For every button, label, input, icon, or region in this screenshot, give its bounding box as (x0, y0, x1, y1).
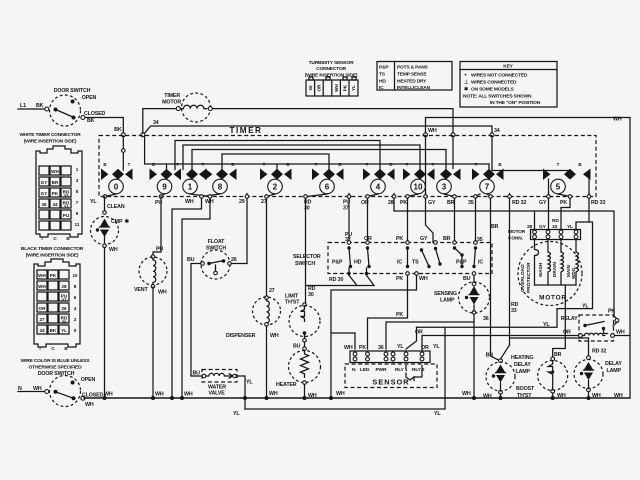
svg-text:GY: GY (428, 200, 436, 206)
svg-text:OR: OR (39, 306, 47, 311)
svg-text:T: T (557, 162, 560, 167)
legend box P&P/TS/HD/IC (377, 62, 452, 92)
svg-text:BK: BK (50, 328, 57, 333)
svg-text:WH: WH (336, 391, 345, 397)
timer box (99, 136, 596, 197)
svg-text:DELAY: DELAY (605, 361, 622, 367)
svg-text:3: 3 (442, 183, 447, 192)
svg-text:B: B (103, 162, 106, 167)
svg-text:SWITCH: SWITCH (295, 261, 315, 267)
svg-text:30: 30 (304, 206, 310, 212)
svg-text:RELAY: RELAY (561, 316, 578, 322)
dispenser chain (226, 198, 281, 398)
svg-text:YL: YL (351, 85, 356, 91)
SEC5 (84, 194, 630, 400)
wire from motor terminal into timer (145, 136, 489, 164)
wire motor to boost (553, 285, 566, 358)
svg-text:5: 5 (76, 189, 79, 194)
svg-text:4: 4 (376, 183, 381, 192)
timer cam 2 (260, 169, 292, 194)
svg-text:YL: YL (434, 411, 441, 417)
svg-text:WH: WH (613, 117, 622, 123)
svg-text:GY: GY (41, 191, 48, 196)
svg-text:IC: IC (379, 85, 384, 91)
svg-text:33: 33 (63, 205, 69, 210)
svg-text:CLOSED: CLOSED (84, 111, 105, 117)
svg-text:T: T (39, 346, 42, 351)
selector contacts (347, 246, 477, 268)
svg-text:VENT: VENT (134, 287, 148, 293)
black timer connector (21, 246, 84, 351)
svg-text:11: 11 (75, 222, 80, 227)
node 34 terminal (490, 133, 494, 137)
timer cam 10 (403, 169, 435, 194)
timer internal bus wires (123, 136, 570, 197)
motor connector (508, 218, 581, 242)
wire BK drop (122, 136, 124, 170)
svg-text:4: 4 (74, 306, 77, 311)
svg-text:CONN.: CONN. (508, 236, 524, 242)
svg-text:TH'ST: TH'ST (285, 300, 300, 306)
selector contact labels (332, 260, 483, 266)
svg-text:RD 32: RD 32 (512, 200, 526, 206)
svg-text:WH: WH (109, 247, 118, 253)
bus junction nodes (103, 396, 591, 400)
wire BK: door switch to timer top (85, 118, 123, 134)
main winding (575, 240, 577, 253)
wire WH riser (331, 275, 417, 398)
svg-text:0: 0 (114, 183, 119, 192)
wire WH right loop (top) (426, 118, 631, 398)
svg-text:34: 34 (52, 202, 58, 207)
timer cam positions (101, 162, 591, 197)
svg-text:HEATING: HEATING (511, 355, 533, 361)
wire: timer motor to WH terminal (213, 109, 454, 133)
svg-text:B: B (578, 162, 581, 167)
svg-text:WH: WH (616, 330, 625, 336)
node timer-motor/34 terminal (141, 133, 145, 137)
sensor connector (344, 344, 440, 363)
svg-text:26: 26 (61, 306, 67, 311)
svg-text:VALVE: VALVE (209, 391, 226, 397)
svg-text:WIRES NOT CONNECTED: WIRES NOT CONNECTED (471, 73, 528, 79)
svg-text:7: 7 (76, 200, 79, 205)
svg-text:36: 36 (483, 316, 489, 322)
svg-text:WH: WH (158, 290, 167, 296)
svg-text:T: T (176, 162, 179, 167)
wire RD32 to delay lamp (510, 338, 589, 356)
svg-text:BLACK TIMER CONNECTOR: BLACK TIMER CONNECTOR (21, 246, 84, 252)
wire 29 float to timer (231, 198, 247, 263)
svg-text:29: 29 (239, 199, 245, 205)
svg-text:IC: IC (478, 260, 483, 266)
timer cam 3 (437, 169, 461, 194)
svg-text:WDG.: WDG. (571, 266, 576, 279)
svg-text:B: B (152, 162, 155, 167)
svg-text:BR: BR (486, 353, 494, 359)
svg-text:DOOR SWITCH: DOOR SWITCH (38, 371, 75, 377)
wire 36 to sensor (386, 322, 474, 349)
svg-text:NOTE: ALL SWITCHES SHOWN: NOTE: ALL SWITCHES SHOWN (463, 94, 532, 100)
svg-text:GY: GY (539, 200, 547, 206)
timer cam 5 (543, 169, 591, 197)
svg-text:T: T (41, 236, 44, 241)
wire RD32 vertical (509, 198, 511, 345)
selector top terminal nodes (347, 241, 477, 245)
svg-text:34: 34 (153, 120, 159, 126)
svg-text:0: 0 (74, 328, 77, 333)
svg-text:RD 30: RD 30 (329, 277, 343, 283)
svg-text:6: 6 (74, 295, 77, 300)
timer cam 8 (205, 169, 237, 194)
svg-text:YL: YL (90, 199, 97, 205)
wire RD30 junction to selector (306, 285, 375, 287)
svg-text:CONNECTOR: CONNECTOR (316, 66, 346, 72)
wire WH jog 2 (182, 198, 210, 398)
drain winding (560, 240, 562, 253)
svg-text:OTHERWISE SPECIFIED: OTHERWISE SPECIFIED (29, 365, 83, 371)
svg-text:9: 9 (162, 183, 167, 192)
boost thermostat (516, 352, 568, 399)
svg-text:TS: TS (412, 260, 419, 266)
wire PK jog to motor conn (561, 198, 570, 229)
door switch (L1 side) (18, 88, 105, 126)
svg-text:YL: YL (582, 304, 589, 310)
svg-text:8: 8 (74, 284, 77, 289)
SEC1 (18, 132, 103, 408)
svg-text:BR: BR (447, 200, 455, 206)
wire 28 drop to pin (534, 211, 536, 230)
WH neutral bus (84, 397, 630, 399)
svg-text:TIMER: TIMER (164, 93, 180, 99)
svg-text:FLOAT: FLOAT (208, 239, 225, 245)
svg-text:P&P: P&P (379, 65, 389, 71)
float switch (187, 239, 237, 279)
turbidity sensor connector (305, 60, 358, 96)
svg-text:WH: WH (428, 128, 437, 134)
svg-text:28: 28 (388, 200, 394, 206)
svg-text:DELAY: DELAY (514, 362, 531, 368)
svg-text:PK: PK (560, 200, 567, 206)
svg-text:✱: ✱ (125, 219, 130, 225)
svg-text:9: 9 (76, 211, 79, 216)
svg-text:WIRE COLOR IS BLUE UNLESS: WIRE COLOR IS BLUE UNLESS (21, 358, 91, 364)
svg-text:WH: WH (270, 333, 279, 339)
lamp glyph (100, 219, 109, 227)
svg-text:YL: YL (61, 328, 67, 333)
svg-text:P&P: P&P (332, 260, 343, 266)
SEC2 (90, 126, 605, 212)
svg-text:ON SOME MODELS: ON SOME MODELS (471, 87, 515, 93)
svg-text:TURBIDITY SENSOR: TURBIDITY SENSOR (309, 60, 354, 66)
wire BR from cam 7 (487, 194, 499, 360)
svg-text:RD 32: RD 32 (592, 349, 606, 355)
svg-text:1: 1 (76, 167, 79, 172)
svg-text:PK: PK (359, 345, 366, 351)
svg-text:BU: BU (187, 257, 195, 263)
svg-text:WHITE TIMER CONNECTOR: WHITE TIMER CONNECTOR (20, 132, 82, 138)
svg-text:WH: WH (419, 276, 428, 282)
SEC4 (233, 198, 579, 417)
svg-text:BK: BK (114, 127, 122, 133)
motor (518, 240, 582, 358)
sensing lamp (434, 275, 490, 398)
jogs from circles to terminals (105, 194, 589, 197)
wire 34 (145, 126, 493, 133)
svg-text:34: 34 (39, 328, 45, 333)
wire YL bottom line (245, 327, 445, 409)
svg-text:2: 2 (273, 183, 278, 192)
svg-text:YL: YL (433, 344, 440, 350)
svg-text:2: 2 (74, 317, 77, 322)
svg-text:WH: WH (38, 284, 46, 289)
svg-text:SELECTOR: SELECTOR (293, 254, 321, 260)
bus line 1 (175, 141, 380, 170)
svg-text:HD: HD (379, 79, 386, 85)
water valve (193, 370, 254, 397)
svg-text:26: 26 (231, 257, 237, 263)
svg-text:10: 10 (414, 183, 423, 192)
svg-text:27: 27 (39, 317, 45, 322)
svg-text:30: 30 (308, 292, 314, 298)
svg-text:WH: WH (269, 391, 278, 397)
timer cam 1 (183, 169, 207, 194)
vent chain (134, 197, 167, 399)
pump CMP chain (91, 197, 130, 399)
svg-text:PK: PK (50, 273, 57, 278)
svg-text:BK: BK (36, 103, 44, 109)
bus line 2 (183, 145, 420, 170)
svg-text:DOOR SWITCH: DOOR SWITCH (54, 88, 91, 94)
svg-text:30: 30 (61, 320, 67, 325)
svg-text:IC: IC (397, 260, 402, 266)
bus line 3 (192, 150, 446, 170)
svg-text:YL: YL (246, 380, 253, 386)
svg-text:8: 8 (218, 183, 223, 192)
svg-text:HEATED DRY: HEATED DRY (397, 79, 427, 85)
selector switch box (293, 243, 492, 274)
svg-text:RD 33: RD 33 (591, 200, 605, 206)
svg-text:WH: WH (184, 392, 193, 398)
svg-text:6: 6 (325, 183, 330, 192)
svg-text:WH: WH (38, 273, 46, 278)
bus line 4 (222, 154, 329, 170)
svg-text:BR: BR (52, 180, 59, 185)
svg-text:37: 37 (343, 206, 349, 212)
svg-text:PK: PK (396, 312, 403, 318)
wire WH terminal drop (425, 136, 427, 197)
wire YL diag to RLY1 pin (406, 327, 417, 349)
svg-text:PK: PK (396, 276, 403, 282)
svg-text:3: 3 (76, 178, 79, 183)
svg-text:OVERLOAD: OVERLOAD (520, 264, 526, 292)
svg-text:(WIRE INSERTION SIDE): (WIRE INSERTION SIDE) (24, 139, 77, 145)
terminal nodes on timer bottom (103, 195, 591, 199)
svg-text:B: B (338, 162, 341, 167)
overload protector (535, 240, 539, 286)
svg-text:36: 36 (378, 345, 384, 351)
svg-text:27: 27 (269, 288, 275, 294)
svg-text:BR: BR (491, 224, 499, 230)
svg-text:LAMP: LAMP (440, 298, 455, 304)
svg-text:T: T (475, 162, 478, 167)
svg-text:DISPENSER: DISPENSER (226, 333, 256, 339)
wire WH to sensor N pin (331, 333, 355, 349)
svg-text:IN THE "ON" POSITION: IN THE "ON" POSITION (490, 100, 541, 106)
node WH terminal (424, 133, 428, 137)
svg-text:BU: BU (293, 344, 301, 350)
svg-text:(WIRE INSERTION SIDE): (WIRE INSERTION SIDE) (26, 253, 79, 259)
svg-text:33: 33 (511, 308, 517, 314)
svg-text:T: T (406, 162, 409, 167)
wire BU float to water valve (191, 264, 201, 377)
svg-text:TEMP SENSE: TEMP SENSE (397, 72, 427, 78)
svg-text:28: 28 (61, 284, 67, 289)
wire diag to heating lamp (501, 345, 510, 359)
svg-text:OR: OR (421, 345, 429, 351)
wire PK riser (368, 275, 408, 349)
svg-text:BU: BU (463, 276, 471, 282)
svg-text:INTELLICLEAN: INTELLICLEAN (397, 85, 431, 91)
svg-text:WH: WH (185, 199, 194, 205)
sensor box (345, 364, 437, 388)
svg-text:LAMP: LAMP (516, 369, 531, 375)
wires timer to selector top (349, 198, 476, 242)
timer cam 7 (472, 169, 504, 194)
timer cam 4 (363, 169, 395, 194)
timer motor (143, 93, 453, 133)
svg-text:T: T (366, 162, 369, 167)
wash winding (547, 240, 549, 253)
wire WH jog 1 (172, 198, 202, 398)
timer bottom terminal labels (90, 199, 605, 212)
wire YL down from motor conn (417, 222, 593, 327)
svg-text:36: 36 (308, 85, 313, 91)
svg-text:PWR: PWR (376, 367, 387, 373)
svg-text:+: + (464, 74, 467, 79)
svg-text:MOTOR: MOTOR (508, 229, 526, 235)
timer cam 6 (312, 169, 344, 194)
svg-text:WH: WH (155, 392, 164, 398)
wire OR relay line (422, 336, 579, 352)
svg-text:T: T (263, 162, 266, 167)
svg-text:WH: WH (85, 402, 94, 408)
wire 34 terminal drop (452, 136, 454, 169)
svg-text:WH: WH (462, 391, 471, 397)
svg-text:T: T (202, 162, 205, 167)
svg-text:BOOST: BOOST (516, 386, 535, 392)
selector top labels (345, 232, 483, 243)
svg-text:OPEN: OPEN (82, 95, 97, 101)
svg-text:T: T (315, 162, 318, 167)
wire 28 long horizontal (394, 198, 617, 318)
svg-text:HD: HD (354, 260, 362, 266)
svg-text:OR: OR (563, 330, 571, 336)
svg-text:MOTOR: MOTOR (162, 100, 181, 106)
node BK timer terminal (121, 133, 125, 137)
white timer connector (20, 132, 82, 241)
svg-text:1: 1 (188, 183, 193, 192)
svg-text:34: 34 (494, 128, 500, 134)
key box (460, 62, 557, 108)
wire RD33 branch (576, 198, 589, 229)
svg-text:WH: WH (104, 392, 113, 398)
svg-text:GY: GY (420, 236, 428, 242)
svg-text:33: 33 (63, 194, 69, 199)
svg-text:CLEAN: CLEAN (107, 204, 125, 210)
svg-text:DRAIN: DRAIN (552, 262, 557, 277)
svg-text:10: 10 (72, 273, 78, 278)
svg-text:POTS & PANS: POTS & PANS (397, 65, 429, 71)
svg-text:PK: PK (52, 191, 59, 196)
svg-text:PU: PU (63, 213, 70, 218)
svg-text:PK: PK (608, 309, 615, 315)
door switch (N side) (18, 371, 103, 408)
timer cam 9 (150, 169, 182, 194)
wire GY to motor conn (548, 198, 550, 229)
node mid BK (122, 149, 126, 153)
svg-text:BK: BK (87, 118, 95, 124)
svg-text:YL: YL (397, 344, 404, 350)
svg-text:B: B (389, 162, 392, 167)
SEC3 (91, 197, 375, 410)
svg-text:35: 35 (477, 237, 483, 243)
svg-text:GY: GY (41, 180, 48, 185)
svg-text:KEY: KEY (503, 64, 513, 70)
heating delay lamp (483, 353, 533, 400)
svg-text:TS: TS (379, 72, 386, 78)
svg-text:HEATER: HEATER (276, 382, 297, 388)
node WH terminal on timer (451, 133, 455, 137)
svg-text:PK: PK (343, 84, 348, 91)
svg-text:PROTECTOR: PROTECTOR (526, 262, 532, 293)
wire YL valve down (236, 376, 245, 409)
svg-text:PU: PU (156, 247, 163, 253)
wire RD30 chain (285, 198, 374, 305)
wire P&P/HD stubs to RD30 (348, 268, 350, 274)
svg-text:SENSING: SENSING (434, 291, 457, 297)
svg-text:MOTOR: MOTOR (539, 295, 567, 302)
svg-text:T: T (432, 162, 435, 167)
svg-text:B: B (286, 162, 289, 167)
svg-text:RLY 2: RLY 2 (412, 367, 425, 373)
selector bottom nodes and labels (347, 272, 476, 282)
svg-text:BR: BR (554, 352, 562, 358)
svg-text:TIMER: TIMER (230, 126, 263, 135)
relay (561, 309, 630, 342)
svg-text:OPEN: OPEN (81, 377, 96, 383)
svg-text:PK: PK (396, 236, 403, 242)
wire to position 5 (492, 136, 570, 172)
svg-text:BR: BR (443, 236, 451, 242)
svg-text:WASH: WASH (538, 262, 543, 277)
timer cam 0 (101, 169, 133, 194)
svg-text:B: B (498, 162, 501, 167)
svg-text:SENSOR: SENSOR (372, 378, 409, 387)
svg-text:WH: WH (344, 345, 353, 351)
svg-text:OR: OR (317, 84, 322, 92)
svg-text:LAMP: LAMP (607, 368, 622, 374)
svg-text:WH: WH (51, 169, 59, 174)
bus WH labels (104, 391, 471, 398)
svg-text:PK: PK (400, 200, 407, 206)
delay lamp (574, 349, 623, 400)
svg-text:7: 7 (485, 183, 490, 192)
svg-text:T: T (128, 162, 131, 167)
heater (276, 350, 321, 399)
svg-text:P&P: P&P (456, 260, 467, 266)
svg-text:LED: LED (360, 367, 370, 373)
